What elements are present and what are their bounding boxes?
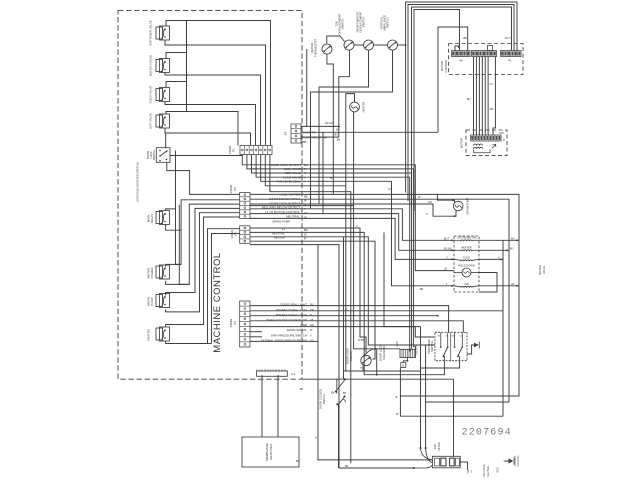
motor control notch [488,46,493,51]
svg-text:(CONSOLE MOUNTED SWITCH): (CONSOLE MOUNTED SWITCH) [136,162,140,201]
front weight displacement switch [356,11,374,50]
wire cold top [166,82,187,88]
svg-text:DOOR LOCK: DOOR LOCK [346,348,350,364]
svg-text:SWITCH: SWITCH [349,351,353,362]
svg-text:BK: BK [345,465,349,468]
P4 row labels [261,303,314,343]
svg-text:BU: BU [335,133,339,136]
wire fan row 1 [242,155,454,271]
svg-text:GND: GND [497,467,500,473]
svg-text:DRAIN PUMP: DRAIN PUMP [272,220,290,224]
wire doorswitch top stub [165,133,167,148]
wire bleach bottom [165,73,261,146]
wire motor control feed [438,27,468,132]
wire circle top curve [364,348,377,357]
wire front to vert [374,44,388,46]
wire door closed feed [343,237,345,379]
svg-text:GROUND: GROUND [517,455,520,466]
motor control title [440,59,448,73]
svg-text:DRAIN VOLTED DOOR HOOD: DRAIN VOLTED DOOR HOOD [266,318,307,322]
svg-text:UNLOCK: UNLOCK [416,345,419,355]
svg-text:BU: BU [511,237,515,240]
wire P4 row 6 short [250,331,262,333]
wire color codes middle [304,163,308,241]
wire hot bottom [165,128,251,146]
wire loop inner to emi [425,402,433,463]
wire fan row 2 [247,155,416,350]
svg-text:BU: BU [467,98,471,101]
svg-text:HEATER: HEATER [147,329,151,341]
svg-text:C4: C4 [460,336,462,338]
wire cold bottom [165,102,256,146]
svg-text:N6: N6 [438,336,440,338]
svg-text:VALVE: VALVE [542,266,546,274]
machine control enclosure dashed border [118,10,302,379]
svg-text:P3: P3 [284,131,288,135]
wire P4 row 1 [250,306,449,333]
wire solenoid feed row [375,348,400,350]
svg-text:HEATER: HEATER [310,43,314,54]
svg-text:LOCK: LOCK [396,340,399,347]
wire bottom feed row [250,245,339,468]
svg-text:HEATER: HEATER [274,236,285,240]
solenoid BLEACH VALVE [149,55,170,76]
svg-text:BU: BU [296,460,300,463]
svg-text:BU: BU [330,177,334,180]
wire P4 row 2 [250,310,503,312]
svg-text:P4: P4 [233,321,237,325]
wire door closed bottom [338,405,340,468]
svg-text:EMI: EMI [433,444,437,449]
svg-text:SWITCH: SWITCH [362,17,366,28]
cabinet ground symbol [504,455,520,466]
wire bleach top [166,53,187,59]
svg-text:L1: L1 [282,227,286,231]
wire solenoid down [395,368,503,417]
svg-text:F1: F1 [292,372,296,376]
wire P9 row 3 pump return [250,204,456,217]
motor harness codes [467,83,504,135]
pressure switch dashed box [435,332,467,360]
wire fan row 4 [256,155,410,352]
svg-text:DOOR LOCK: DOOR LOCK [379,345,383,361]
solenoid HOT VALVE [149,113,170,129]
machine control title [212,252,223,352]
svg-text:POWER: POWER [150,268,154,279]
wire P9 row 1 loop outer [250,194,519,396]
wire P4 row 8 [250,340,318,342]
svg-text:SOFTENER VAL: SOFTENER VAL [457,236,477,240]
svg-text:PUMP: PUMP [150,297,154,305]
svg-text:BK: BK [420,288,424,291]
motor control conn A [452,51,471,63]
connector P2 [230,226,250,244]
wire hot top [166,112,187,115]
svg-text:LB: LB [511,283,514,286]
svg-text:1R Y: 1R Y [505,36,511,40]
L1 bus vertical [186,21,188,112]
svg-text:SWITCH: SWITCH [322,394,326,405]
svg-text:LB: LB [444,268,447,271]
wire P2 row 2 pressure bottom [250,232,444,374]
svg-text:HEATER: HEATER [461,246,471,250]
wire softener top [166,21,271,146]
svg-text:4A: 4A [459,59,462,63]
wire fan row 3 [252,155,412,350]
drain pump [453,197,469,214]
connector CONN P4 [229,301,250,347]
wire P4 row 4 [250,321,463,333]
wire door lock circle bottom [344,365,364,371]
svg-text:SOFTENER VALVE: SOFTENER VALVE [149,20,153,46]
motor windings [474,144,496,153]
svg-text:LB: LB [310,318,313,322]
wire left riser A [176,151,182,265]
svg-text:SOLENOID: SOLENOID [382,346,386,360]
svg-text:CW: CW [464,282,469,286]
connector CONN P1 [228,146,272,155]
valve coil hot [454,236,479,242]
motor harness wires [474,57,496,136]
svg-text:MOTOR: MOTOR [440,61,444,71]
wire door lock circle bottom right [363,370,421,372]
valve motor hold [454,264,479,278]
console switch note [136,162,140,201]
water valve right stubs [479,239,519,292]
vertical unbalance switch [380,15,398,50]
wire P2 row 4 circle right [250,241,375,359]
wire P9 row 5 water valve 2 [250,214,454,252]
bottom labels [467,464,500,477]
door lock lid switch [146,148,170,163]
wire P3 row3 [301,136,339,138]
svg-text:NEUTRAL: NEUTRAL [487,465,490,477]
wire solenoid row uplink [376,349,378,376]
wire code top right [505,36,511,40]
wire heater top [346,94,355,186]
P2 row labels [272,227,285,240]
relay MAIN RELAY [147,211,170,225]
solenoid COLD VALVE [149,86,170,104]
wire P9 row 2 loop inner [250,199,509,402]
valve coil cw [454,282,479,288]
water valve title [538,265,546,274]
wire fan row 5 [261,155,454,287]
wire tub to front [354,44,364,46]
svg-text:BK: BK [337,138,341,141]
water valve dashed box [454,236,479,292]
connector CONN P9 [229,185,250,219]
wire tub bottom [339,50,350,137]
wire P4 row 5 [250,326,421,328]
fuse F1 bar [257,370,296,377]
svg-text:MACHINE CONTROL: MACHINE CONTROL [212,252,223,352]
scattered wire codes [296,177,432,468]
svg-text:WASH SIGNAL: WASH SIGNAL [287,328,308,332]
wire heater relay [166,217,240,344]
connector P3 [284,124,302,143]
wire P9 row 4 water valve 1 [250,209,454,241]
svg-text:LINE CORD: LINE CORD [483,464,486,477]
pressure switch bottom wire [421,361,460,368]
wire bus to P1 drop [187,112,239,146]
wire P3 row2 [301,131,438,133]
wire doorswitch down [167,162,240,194]
svg-text:SWITCH: SWITCH [386,18,390,29]
emi filter box [432,442,460,468]
part number [462,428,512,439]
wire membrane right [277,375,279,437]
wire P3 row4 [301,122,341,142]
svg-text:W: W [304,216,307,220]
wire P2 row 1 door circle top [250,228,366,353]
svg-text:C6: C6 [445,336,447,338]
svg-text:RD-GA: RD-GA [325,122,333,125]
svg-text:GY: GY [388,188,392,191]
svg-text:BLEACH VALVE: BLEACH VALVE [149,55,153,76]
P1 fan row labels [270,163,301,184]
svg-text:BK: BK [300,388,304,391]
door lock switch circle [346,348,372,370]
wire mid vertical [322,132,324,213]
wire thermostat top [327,36,345,44]
svg-text:BK: BK [304,228,308,232]
pressure switch title [427,339,434,354]
relay DRAIN PUMP [147,294,170,308]
motor title [460,138,464,148]
svg-text:SWITCH: SWITCH [152,150,156,161]
svg-text:P9: P9 [233,187,237,191]
svg-text:HOLD DOWN: HOLD DOWN [458,264,474,268]
relay MOTOR POWER [147,265,170,279]
svg-text:N4: N4 [452,336,454,338]
heater element [350,102,366,113]
svg-text:MOTOR: MOTOR [460,138,464,148]
wire left drop [315,245,432,460]
wire thermostat bottom [327,54,333,194]
svg-text:2207694: 2207694 [462,428,512,439]
svg-text:COLD VALVE: COLD VALVE [149,86,153,104]
svg-text:R: R [304,237,306,241]
svg-text:GY: GY [490,83,494,86]
valve coil heater [454,246,479,252]
motor dashed box [466,130,507,156]
wire row to solenoid [250,206,375,349]
door closed switch [319,379,347,409]
wire P3 row1 [301,125,340,127]
door lock solenoid [379,340,419,361]
top loop wire 4 [414,10,460,212]
wire fan row 6 [265,155,346,372]
svg-text:NEUTRAL: NEUTRAL [272,231,285,235]
door lock B terminal [401,358,409,368]
svg-text:V: V [310,333,312,337]
svg-text:BK: BK [331,392,335,395]
svg-text:BU: BU [310,303,314,307]
svg-text:BU T: BU T [444,237,450,240]
wire front bottom [319,50,369,204]
top loop wire 1 [406,2,517,193]
svg-text:NEUTRAL: NEUTRAL [286,214,300,218]
top loop wire 3 [412,7,512,206]
water valve wire codes [444,237,515,286]
svg-text:BU BK: BU BK [444,247,452,250]
wire motor power relay [166,200,240,285]
svg-text:SWITCHES: SWITCHES [269,444,273,460]
wire drain pump relay [166,208,240,312]
relay HEATER [147,327,170,341]
svg-text:BIDIRECTIONAL 2 SIG: BIDIRECTIONAL 2 SIG [276,313,307,317]
tub displacement switch [335,13,355,50]
wire P4 row 3 [250,315,439,317]
motor connector [471,135,506,142]
svg-text:OR: OR [490,108,494,111]
pressure switch arrow [467,342,479,354]
svg-text:DRAIN PUMP: DRAIN PUMP [466,197,470,214]
wire left riser B [179,205,189,285]
svg-text:SPIN PRESSURE SWITCH: SPIN PRESSURE SWITCH [271,333,307,337]
svg-text:RELAY: RELAY [150,214,154,223]
svg-text:SWITCH: SWITCH [341,19,345,30]
pressure switch contacts [438,332,463,360]
wire loop outer to emi [420,396,433,460]
wire doorswitch to P1 [170,155,242,156]
wire bottom run 2 [339,465,432,469]
svg-text:R: R [310,313,312,317]
svg-text:DOOR SEAL LIGHT: DOOR SEAL LIGHT [281,303,308,307]
wire softener bottom [165,40,266,146]
svg-text:COLD: COLD [463,256,470,260]
svg-text:OR: OR [428,201,432,204]
wire mid drop [306,49,308,126]
wire main relay to P9 [166,209,182,230]
wire heater bottom [353,112,355,206]
motor control conn B [472,51,497,57]
wire pump feed stub [437,194,454,202]
svg-text:HEATER: HEATER [362,102,366,113]
svg-text:Y: Y [304,179,306,183]
wire fan row 7 [270,155,351,464]
motor control hook [455,46,459,51]
wire pressure top mid feed [384,232,434,337]
wire vert to loop [398,44,407,46]
svg-text:TUB LEVEL SENS: TUB LEVEL SENS [276,179,301,183]
motor control conn C [501,51,522,63]
svg-text:W-BK: W-BK [358,339,365,342]
svg-text:BU: BU [510,247,514,250]
heater thermostat [310,39,332,57]
svg-text:HOT VALVE: HOT VALVE [149,113,153,129]
wire right loop third [502,240,504,416]
P9 row labels [262,193,301,224]
wire border row to emi [302,378,454,456]
valve coil cold [454,256,479,262]
wire membrane left [261,375,263,437]
svg-text:P1: P1 [232,148,236,152]
svg-text:1BU: 1BU [499,132,504,135]
wire P2 row 3 pressure left [250,237,434,345]
wire emi right [460,462,468,470]
wire P4 row 7 short [250,336,262,338]
svg-text:FILTER: FILTER [437,442,441,451]
wire vert bottom [311,50,393,208]
svg-text:CONTROL: CONTROL [444,59,448,73]
membrane switches box [242,437,299,467]
top loop wire 2 [408,5,514,202]
svg-text:P1: P1 [508,59,512,63]
svg-text:2BU: 2BU [463,36,468,40]
svg-text:SWITCH: SWITCH [430,341,434,352]
wire P9 row 6 water valve 3 [250,218,454,260]
svg-text:DOOR CLOSED: DOOR CLOSED [319,389,323,409]
solenoid SOFTENER VALVE [149,20,170,46]
wire code 2BU [463,36,468,40]
svg-text:W: W [304,232,307,236]
svg-text:THERMOSTAT: THERMOSTAT [314,39,318,57]
wire P2 riser [208,234,240,344]
P3 row labels [303,131,327,140]
svg-text:WATER: WATER [538,265,542,274]
motor control dashed box [449,44,523,75]
